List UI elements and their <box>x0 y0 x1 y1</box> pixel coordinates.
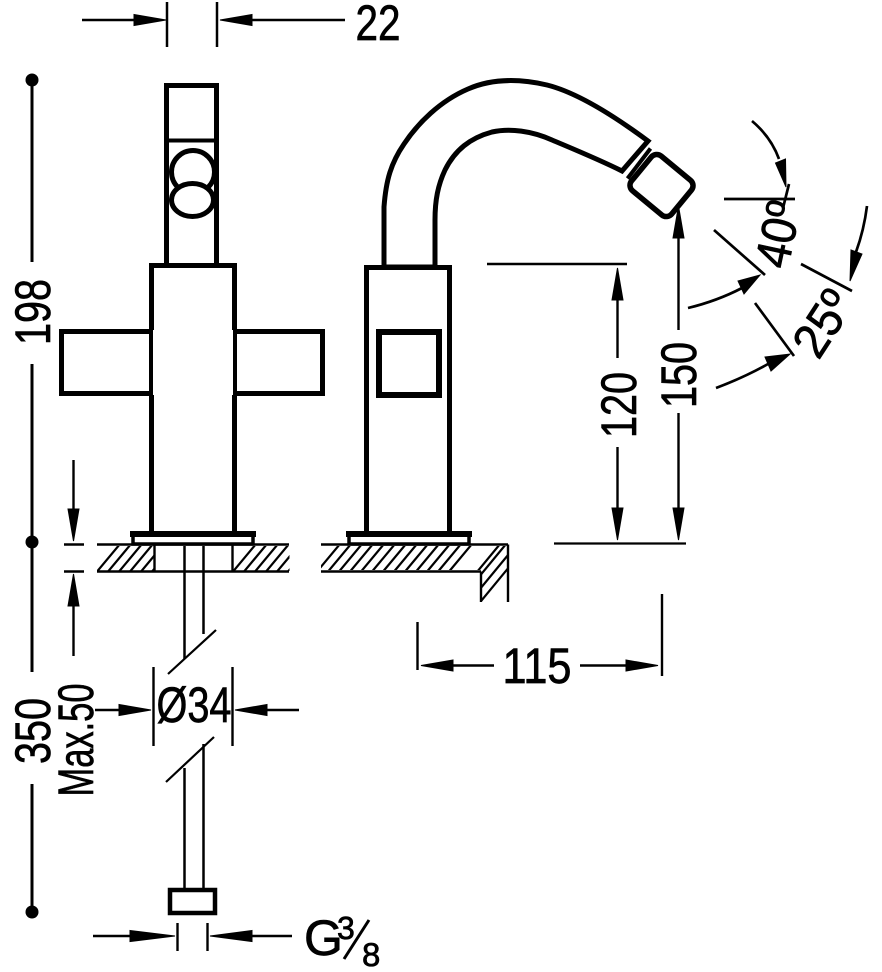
svg-text:Max.50: Max.50 <box>48 684 104 797</box>
base flange left <box>133 535 253 544</box>
120 dimension <box>612 268 623 540</box>
flange right <box>349 535 469 544</box>
40 degree dimension <box>688 121 795 308</box>
top column <box>164 86 219 266</box>
threaded rod with break symbols <box>166 546 216 890</box>
body <box>152 266 235 534</box>
handle square <box>379 332 439 395</box>
dimension 22 top <box>82 2 345 47</box>
svg-text:120: 120 <box>591 372 647 438</box>
cross handle right <box>235 332 323 394</box>
left vertical dimension line with dots <box>26 74 39 919</box>
Max.50 dimension <box>64 460 84 656</box>
150 dimension <box>673 206 684 540</box>
body side view <box>367 268 450 534</box>
svg-text:Ø34: Ø34 <box>157 677 232 733</box>
re-draw body sides over handle <box>149 266 154 534</box>
Ø34 dimension <box>95 667 299 746</box>
reference line at body top (120) <box>487 263 627 265</box>
circles detail <box>172 151 215 194</box>
svg-text:22: 22 <box>356 0 401 51</box>
aerator <box>627 152 696 220</box>
deck (side view, L-shaped) <box>321 545 508 603</box>
svg-text:3: 3 <box>337 910 355 946</box>
25 degree dimension <box>716 206 867 388</box>
cross handle left <box>62 332 152 394</box>
svg-text:150: 150 <box>651 342 707 408</box>
aerator band <box>628 149 651 179</box>
115 dimension <box>418 594 663 676</box>
svg-text:198: 198 <box>5 279 61 345</box>
svg-text:115: 115 <box>503 638 572 694</box>
text G 3/8 <box>304 910 380 972</box>
G3/8 dimension <box>93 923 292 951</box>
deck (front view) with hatch <box>97 545 289 572</box>
svg-text:8: 8 <box>362 936 380 972</box>
nut <box>170 890 215 913</box>
surface reference line right <box>554 542 686 544</box>
spout <box>384 81 648 267</box>
